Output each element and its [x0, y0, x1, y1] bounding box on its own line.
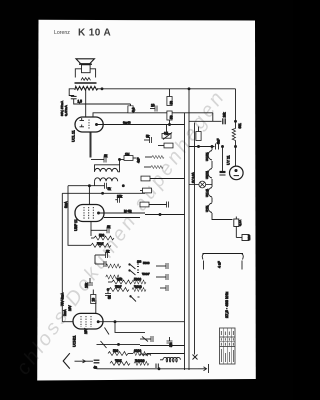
wire: UBF11 cathode down: [90, 222, 92, 237]
svg-text:10k: 10k: [223, 112, 227, 118]
selector left hook: [202, 254, 204, 260]
output transformer T1 secondary: [81, 78, 90, 81]
wire C10: [89, 278, 91, 283]
resistor R6 500: [91, 243, 111, 247]
switch S4 diagonal: [101, 341, 107, 348]
svg-text:220: 220: [247, 235, 251, 240]
svg-text:1,5: 1,5: [78, 100, 83, 104]
svg-text:8V 0,2A: 8V 0,2A: [191, 172, 195, 183]
node y146.5 right: [235, 146, 237, 148]
left rail x=68: [68, 186, 88, 246]
oscillator coil L3: [140, 354, 151, 356]
svg-text:500: 500: [99, 234, 105, 238]
resistor R14: [133, 352, 147, 356]
node y121.3: [235, 120, 237, 122]
loudspeaker LS: [75, 59, 95, 78]
capacitor C20 10nF: [223, 118, 225, 124]
svg-text:8mA: 8mA: [64, 201, 68, 208]
svg-text:UCL11: UCL11: [205, 188, 209, 197]
svg-text:10V: 10V: [84, 327, 88, 334]
svg-text:UBF11: UBF11: [205, 170, 209, 179]
svg-text:M=52: M=52: [124, 209, 132, 213]
wire P1: [166, 125, 168, 134]
svg-text:'5000': '5000': [142, 272, 150, 276]
UCH11 grids dashed: [81, 316, 91, 327]
resistor R12 500: [108, 352, 128, 356]
svg-text:0,3: 0,3: [132, 107, 136, 112]
wire bottom row y368.8: [97, 368, 199, 370]
node C4 right: [119, 159, 121, 161]
capacitor C21: [216, 144, 219, 150]
wire row y121.3: [189, 120, 222, 122]
UCL11 electrodes: [80, 118, 85, 127]
wire R23 to circle: [235, 141, 237, 167]
UBF11 anode node: [98, 212, 100, 214]
resistor R15: [134, 361, 149, 365]
fuse F1: [234, 217, 239, 231]
wire: grid to UBF11: [88, 186, 90, 205]
capacitor C18: [166, 274, 168, 280]
resistor R8 500: [109, 288, 129, 292]
wire C4 row: [91, 159, 104, 161]
svg-text:27,5 · 468 kHz: 27,5 · 468 kHz: [224, 292, 229, 318]
resistor R11 20: [91, 295, 96, 304]
wire: primary left down: [69, 89, 74, 96]
voltage selector bar: [203, 253, 244, 255]
UCL11 anode node: [96, 124, 98, 126]
capacitor C7 8k: [107, 227, 109, 233]
wire row y288: [160, 287, 166, 289]
resistor R13 500: [110, 361, 130, 365]
capacitor C16 8k: [167, 202, 169, 208]
IF transformer L2 bottom coil: [95, 178, 118, 181]
switch S1: [129, 264, 139, 270]
capacitor C4 8k: [104, 157, 106, 163]
resistor R10: [132, 288, 146, 292]
wire: row B y=193.3: [62, 192, 145, 194]
svg-text:16V: 16V: [68, 304, 72, 311]
wire row y178.5: [150, 178, 185, 180]
heater UCH11: [208, 151, 212, 161]
svg-text:8k: 8k: [107, 225, 111, 229]
wire C6 row: [115, 199, 117, 201]
capacitor C1: [71, 96, 77, 98]
resistor R9 50: [132, 280, 146, 284]
resistor R23 600 vertical zigzag: [232, 129, 235, 141]
resistor R19 22k: [141, 176, 150, 181]
wire bottom rows: [128, 353, 133, 355]
svg-text:3%: 3%: [169, 342, 173, 347]
wire row y204.5: [149, 204, 167, 206]
node right of UCH11: [114, 321, 116, 323]
svg-text:'500': '500': [115, 285, 122, 289]
wire row y277: [156, 276, 166, 278]
wire heater bottom: [212, 213, 233, 220]
wire: IF can top: [119, 160, 121, 166]
node: bus junction right: [188, 88, 190, 90]
svg-text:10: 10: [151, 104, 155, 108]
node bottom: [158, 368, 160, 370]
heater chain vertical: [211, 147, 213, 151]
wire row y145.5: [158, 145, 164, 147]
rectifier tube UY11: [230, 166, 244, 180]
node detector: [107, 289, 109, 291]
wire: [211, 198, 213, 203]
wire C14: [169, 337, 171, 341]
heater UCL11: [208, 188, 212, 198]
band switch table: [220, 328, 236, 364]
wire R2-R3: [169, 89, 171, 97]
output transformer T1 primary: [75, 86, 98, 90]
wire R6 ends: [88, 244, 91, 246]
node row A left: [88, 185, 90, 187]
watermark: [12, 86, 230, 379]
svg-text:K 10 A: K 10 A: [78, 28, 111, 39]
wire row y345.5: [140, 345, 185, 347]
tuning indicator X: [193, 352, 198, 360]
wire: [211, 161, 213, 168]
resistor R5 500: [94, 236, 114, 240]
node heater top: [211, 146, 213, 148]
node: bus junction: [101, 88, 103, 90]
svg-text:5k: 5k: [108, 187, 112, 191]
wire: UCH11 anode out: [99, 321, 184, 323]
svg-text:2mA: 2mA: [63, 309, 67, 316]
left rail x=62.3: [61, 193, 63, 321]
tube UCL11 envelope: [75, 117, 103, 132]
svg-text:'500': '500': [115, 359, 122, 363]
selector right hook: [242, 254, 244, 260]
wire antenna row: [86, 360, 94, 362]
svg-text:50: 50: [169, 101, 173, 105]
wire row y157: [145, 156, 152, 158]
capacitor C12 antenna: [94, 360, 100, 363]
svg-text:20: 20: [92, 298, 96, 302]
wire row y190.5: [140, 190, 143, 192]
svg-text:5000: 5000: [134, 278, 141, 282]
transformer core: [75, 82, 97, 84]
resistor R17: [152, 156, 164, 159]
main bus x=184.5: [184, 113, 186, 370]
capacitor C17: [166, 263, 168, 269]
svg-text:5k: 5k: [146, 135, 150, 139]
svg-text:6000: 6000: [134, 349, 141, 353]
svg-text:50: 50: [169, 115, 173, 119]
IF transformer L1 top coil: [95, 168, 118, 171]
wire: anode row y=124.5: [98, 124, 185, 126]
resistor R24: [196, 132, 201, 141]
svg-text:4 nF: 4 nF: [218, 261, 222, 268]
page: [37, 20, 256, 381]
svg-text:Lorenz: Lorenz: [54, 30, 70, 36]
resistor R1 0,3: [128, 106, 133, 113]
capacitor C14 3k: [167, 341, 173, 343]
wire: UCH11 top feed: [95, 300, 97, 314]
wire: UCL11 cathode down: [89, 132, 91, 158]
wire C11: [107, 290, 109, 294]
wire: grid line y=113.5: [93, 113, 213, 117]
svg-text:0,1A: 0,1A: [238, 220, 242, 226]
wire R1 stub: [130, 104, 132, 106]
capacitor C2: [155, 106, 157, 112]
svg-text:'500': '500': [97, 242, 104, 246]
wire C8 row: [95, 254, 106, 256]
capacitor C13: [156, 364, 158, 369]
svg-text:4nF: 4nF: [137, 157, 141, 163]
wire row y339: [140, 338, 151, 340]
right vertical to rectifier: [235, 89, 237, 129]
capacitor C8: [106, 252, 108, 258]
wire: UBF11 diode row: [104, 217, 140, 219]
svg-text:'6000: '6000: [134, 285, 142, 289]
wire grid elbow: [212, 113, 214, 122]
svg-text:UBF 11: UBF 11: [74, 219, 78, 231]
tube UCH11 envelope: [73, 313, 103, 329]
IF L1 ends: [95, 165, 120, 172]
svg-text:5000: 5000: [143, 261, 150, 265]
wire: row A y=185.7: [68, 185, 105, 187]
resistor R20 2,5: [140, 202, 149, 207]
wire y344.4: [97, 343, 141, 345]
capacitor C3: [150, 137, 152, 143]
svg-text:9m43: 9m43: [123, 121, 131, 125]
wire: to R4: [120, 159, 125, 161]
svg-text:'10000: '10000: [135, 359, 145, 363]
component RC bottom left: [142, 336, 153, 342]
antenna A1: [63, 353, 70, 368]
svg-text:UCH11: UCH11: [205, 152, 209, 161]
wire rows 282/289.5: [108, 281, 112, 283]
heater UY11: [208, 203, 212, 213]
resistor R7 600: [112, 280, 132, 284]
wire: [211, 179, 213, 187]
wire: top HT bus: [97, 88, 236, 90]
node row B: [102, 192, 104, 194]
tube UBF11 envelope: [75, 205, 104, 222]
svg-text:UCH11: UCH11: [73, 335, 77, 347]
resistor R3 50: [167, 111, 172, 120]
antenna arrow: [75, 360, 86, 363]
wire C2: [150, 108, 155, 110]
mains connector: [236, 230, 249, 241]
table cell text smudges: [221, 331, 234, 362]
resistor R22 5000: [106, 275, 121, 279]
capacitor C15: [143, 188, 152, 193]
wire: y214.5 row: [145, 214, 185, 216]
svg-text:601: 601: [238, 123, 242, 129]
wire C7 row: [91, 229, 107, 231]
svg-text:UY11: UY11: [205, 205, 209, 212]
resistor R2 50: [167, 97, 172, 106]
IF L2 ends: [94, 181, 96, 186]
wire row y266: [156, 265, 166, 267]
svg-text:10k: 10k: [85, 282, 89, 288]
svg-text:500: 500: [113, 349, 119, 353]
svg-text:UCL 11: UCL 11: [72, 130, 76, 142]
svg-text:5nF: 5nF: [217, 138, 221, 144]
node y214.5: [159, 214, 161, 216]
wire C3: [144, 139, 150, 141]
switch S2: [130, 296, 140, 302]
svg-text:UY 11: UY 11: [227, 155, 231, 165]
node row A right: [122, 185, 124, 187]
UCL11 grid dashed: [88, 120, 90, 130]
UBF11 grids dashed: [84, 207, 93, 219]
wire row y146.5: [189, 146, 215, 148]
wire to bus bottom: [147, 353, 185, 355]
wire R24: [198, 127, 200, 132]
svg-text:1%: 1%: [137, 260, 142, 264]
potentiometer P1 0,1: [162, 133, 172, 140]
capacitor C19: [166, 285, 168, 291]
wire R5 ends: [91, 237, 94, 239]
wire C22: [222, 147, 224, 173]
wire C1 down to UCL11: [74, 99, 131, 104]
node C22 top: [222, 146, 224, 148]
wire osc row y=332.4: [115, 322, 145, 333]
svg-text:8k: 8k: [106, 250, 110, 254]
capacitor C10 10k: [87, 283, 93, 285]
resistor R21 5000: [106, 264, 121, 268]
mains plug arrow: [198, 364, 209, 373]
svg-text:10k: 10k: [117, 195, 123, 199]
wire L4: [160, 359, 163, 361]
switch S1b: [129, 270, 139, 276]
wire: UBF11 anode row: [100, 212, 146, 214]
node y344.4: [118, 343, 120, 345]
resistor R16: [164, 143, 173, 148]
wire R4 right: [133, 157, 136, 159]
resistor R4 1M: [124, 156, 133, 161]
wire: UCL11 grid coupling down: [90, 132, 92, 158]
wire row y167: [144, 166, 151, 168]
dial lamp LP1: [189, 181, 212, 188]
UY11 cathode bar: [234, 175, 239, 177]
switch S3 diagonal: [105, 328, 110, 335]
capacitor C22 electrolytic: [220, 172, 226, 175]
node R3/anode row: [169, 124, 171, 126]
svg-text:0,47mA: 0,47mA: [64, 104, 68, 116]
node R24 row: [198, 146, 200, 148]
capacitor C6: [118, 197, 120, 203]
wire: UCH11 left cathode: [62, 321, 73, 323]
main bus x=189: [188, 89, 190, 370]
node C8: [106, 258, 108, 260]
capacitor C9: [104, 261, 106, 267]
resistor R18: [151, 166, 163, 169]
wire R3 bottom: [169, 120, 171, 125]
selector left pin: [203, 261, 205, 270]
UCH11 anode node: [97, 321, 99, 323]
wire R11: [92, 290, 94, 295]
svg-text:3k: 3k: [108, 295, 112, 299]
svg-text:600: 600: [117, 278, 123, 282]
selector right pin: [241, 261, 243, 270]
svg-text:8k: 8k: [104, 154, 108, 158]
UY11 anode dot: [235, 169, 237, 171]
wire: anode lead up from UCL11: [85, 89, 87, 117]
bus x=194.5: [194, 123, 196, 353]
oscillator coil L4: [163, 357, 180, 362]
wire: link C8/C9: [94, 255, 96, 264]
wire C9 row: [95, 263, 104, 265]
capacitor C11 3k: [105, 294, 111, 296]
heater UBF11: [208, 169, 212, 179]
svg-text:1M: 1M: [125, 153, 130, 157]
capacitor C5: [105, 183, 107, 189]
